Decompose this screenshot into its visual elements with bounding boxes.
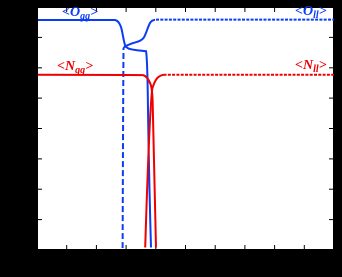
curve Ogg flat+fall (blue solid) [38, 20, 151, 248]
x-axis major ticks top [67, 7, 305, 12]
plot background [37, 7, 334, 250]
y-axis major ticks right [329, 37, 334, 219]
x-axis major ticks bottom [67, 245, 305, 250]
curve Nll recover+flat (red) [152, 75, 163, 89]
curve Oll flat dashed (blue) [156, 19, 334, 21]
plot frame [38, 8, 334, 250]
svg-text:<Oll>: <Oll> [295, 4, 327, 21]
curve Oll rise vertical (blue dashed) [122, 48, 125, 248]
y-axis major ticks left [37, 37, 42, 219]
svg-text:<Nll>: <Nll> [295, 58, 327, 75]
curve Nll flat dashed (red) [164, 74, 335, 76]
curve Nll rise vertical (red) [145, 89, 152, 248]
curve Oll rise+flat (blue) [124, 20, 156, 48]
svg-text:<Ogg>: <Ogg> [62, 5, 98, 22]
curve Ngg flat+fall (red solid) [38, 75, 156, 248]
svg-text:<Ngg>: <Ngg> [57, 59, 93, 76]
